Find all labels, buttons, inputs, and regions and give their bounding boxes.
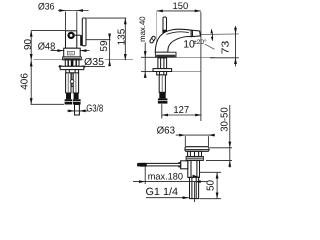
supply hose right (front) <box>73 73 78 93</box>
spout head (outlet, tilted) <box>191 30 200 37</box>
dim 59 <box>86 34 111 67</box>
svg-text:90: 90 <box>23 38 34 50</box>
dim 50 <box>200 172 222 198</box>
logo plate on body <box>67 51 74 55</box>
handle lever bar (front) <box>82 18 86 46</box>
svg-text:G1 1/4: G1 1/4 <box>146 186 179 198</box>
rod lever pivot inside waste <box>188 175 200 178</box>
svg-text:Ø35: Ø35 <box>84 57 104 68</box>
dim G3/8 <box>67 103 104 114</box>
counter line front (gray) <box>34 59 134 61</box>
waste plug cap <box>185 147 209 152</box>
dim G1 1/4 <box>146 186 189 199</box>
pop-up rod <box>138 163 181 166</box>
hose nut right <box>73 99 81 104</box>
svg-text:max.40: max.40 <box>138 16 147 42</box>
svg-text:Ø63: Ø63 <box>157 125 176 136</box>
dim 30-50 <box>206 105 232 168</box>
dim 150 <box>157 1 201 45</box>
dim 127 <box>162 12 202 121</box>
supply hose (side) <box>159 75 165 92</box>
svg-text:59: 59 <box>99 40 110 52</box>
cartridge pivot ring <box>67 32 74 39</box>
svg-text:406: 406 <box>20 73 31 90</box>
handle arm (front) <box>75 35 83 46</box>
faucet body lower (Ø48 section) <box>64 48 80 57</box>
svg-text:max.180: max.180 <box>148 172 183 183</box>
svg-text:127: 127 <box>173 105 189 116</box>
dim Ø36 text <box>38 2 55 13</box>
svg-text:G3/8: G3/8 <box>86 103 103 114</box>
rod end knob <box>137 163 147 167</box>
hose nut left <box>65 99 73 104</box>
dim max.180 <box>133 167 207 203</box>
hose ferrule right <box>74 93 79 99</box>
counter line side bottom (gray) <box>172 71 201 73</box>
handle lever bar (side) <box>163 17 167 32</box>
svg-text:Ø36: Ø36 <box>38 2 55 13</box>
svg-text:73: 73 <box>220 40 231 54</box>
central threaded rod (front) <box>70 73 74 87</box>
svg-text:135: 135 <box>117 28 128 45</box>
mounting nut (side) <box>157 72 167 75</box>
dim Ø63 <box>157 125 215 146</box>
threaded shank (side) <box>158 58 167 69</box>
spout centerline (10 deg) <box>200 33 238 36</box>
dim Ø35 <box>59 57 106 68</box>
dim 135 <box>86 18 127 60</box>
waste body <box>188 161 200 178</box>
mounting nut (front) <box>66 70 79 73</box>
waste flange <box>186 157 203 161</box>
dim 90 <box>23 30 65 60</box>
rod housing on waste body <box>179 161 188 169</box>
horseshoe washer (front) <box>60 66 84 69</box>
dim max.40 <box>138 16 156 78</box>
hose ferrule (side) <box>159 92 165 98</box>
svg-text:±20°: ±20° <box>193 39 207 46</box>
dim Ø48 line <box>51 49 90 52</box>
horseshoe washer (side) <box>153 69 172 72</box>
waste tailpipe <box>190 177 199 198</box>
G3/8 nipple <box>75 105 80 116</box>
dim Ø36 line <box>58 9 89 30</box>
faucet body and spout (side) <box>155 29 191 52</box>
angle leg +20 <box>200 42 215 50</box>
dim 73 <box>210 26 239 67</box>
base escutcheon (front) <box>63 57 82 60</box>
hose ferrule left <box>66 93 71 99</box>
dim Ø48 text <box>38 42 56 53</box>
angle arc ±20° <box>211 29 214 40</box>
waste neck (thread) <box>188 151 202 156</box>
svg-text:30-50: 30-50 <box>219 107 230 132</box>
handle arm to pivot (side) <box>162 30 167 34</box>
svg-text:50: 50 <box>205 179 216 191</box>
hose nut (side) <box>158 98 168 103</box>
threaded shank Ø35 (front) <box>65 60 79 66</box>
label 10±20° <box>183 39 207 51</box>
faucet body upper (Ø36 section) <box>66 31 77 48</box>
dim 406 <box>20 60 64 104</box>
counter line side top (gray) <box>176 56 214 58</box>
handle knob tilted (side, alternate position) <box>149 36 156 44</box>
supply hose left (front) <box>66 73 71 93</box>
base escutcheon (side) <box>155 52 176 57</box>
